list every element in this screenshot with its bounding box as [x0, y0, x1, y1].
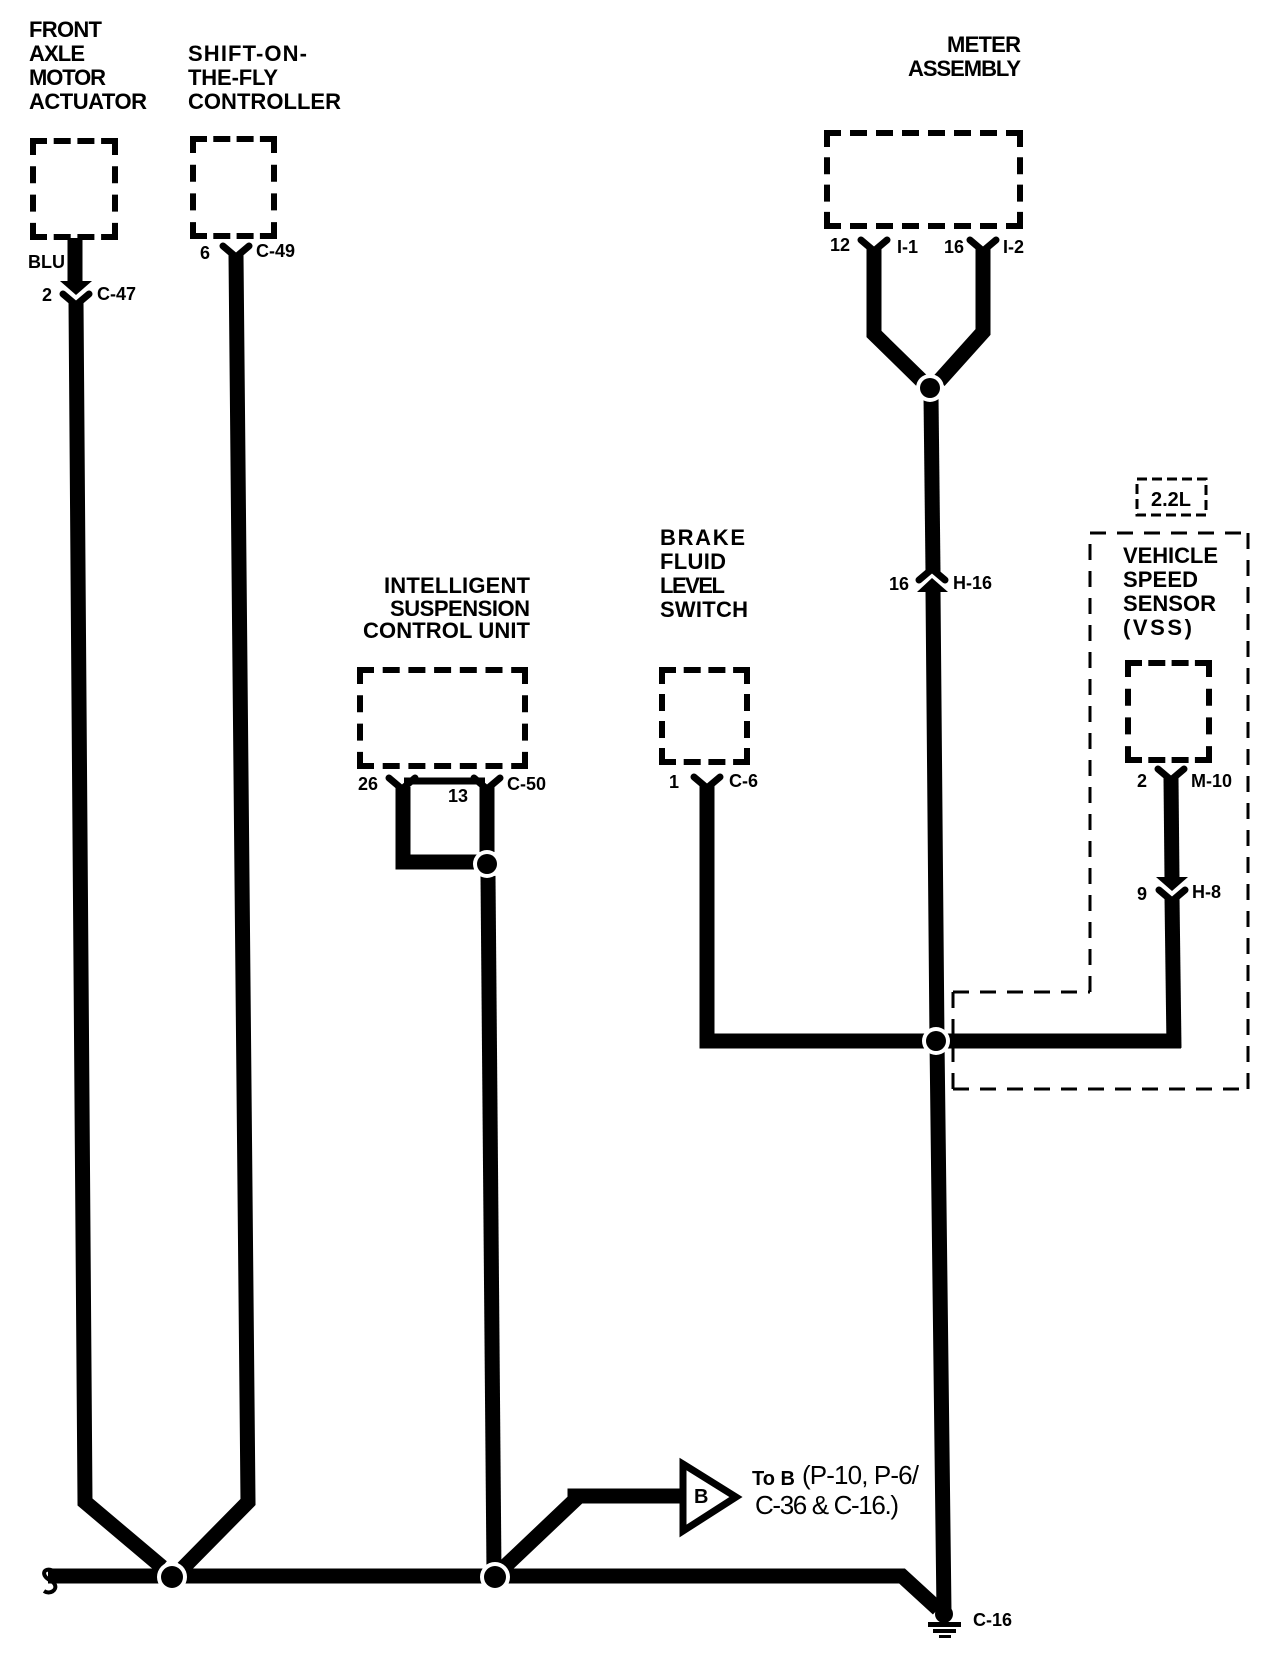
svg-text:26: 26 [358, 774, 378, 794]
svg-text:I-2: I-2 [1003, 237, 1024, 257]
2.2L engine tag box [1137, 479, 1206, 515]
off-page arrow B [683, 1464, 736, 1531]
svg-text:C-36 & C-16.): C-36 & C-16.) [755, 1490, 899, 1520]
svg-text:METER: METER [947, 32, 1021, 57]
dashed region: VSS (2.2L) enclosure [1090, 533, 1248, 1089]
svg-text:VEHICLE: VEHICLE [1123, 543, 1218, 568]
svg-text:To B: To B [752, 1468, 795, 1490]
wire: tie bar between pin 26 and pin 13 [404, 778, 485, 785]
connector H-8 (inline, male down / female) [1156, 877, 1188, 901]
label: VEHICLE SPEED SENSOR (VSS) [1123, 543, 1218, 640]
svg-text:LEVEL: LEVEL [660, 573, 725, 598]
label: BRAKE FLUID LEVEL SWITCH [660, 525, 748, 622]
label: SHIFT-ON-THE-FLY CONTROLLER [188, 41, 341, 114]
svg-text:16: 16 [944, 237, 964, 257]
ISCU pin 13 / connector C-50 (female Y) [474, 778, 500, 789]
svg-text:MOTOR: MOTOR [29, 65, 106, 90]
ISCU pin 26 (female Y) [389, 778, 415, 789]
wire: junction to B arrow [497, 1496, 681, 1574]
svg-text:FRONT: FRONT [29, 17, 103, 42]
wire: shift controller down to lower-left junction [183, 255, 248, 1568]
svg-text:(VSS): (VSS) [1123, 615, 1192, 640]
svg-text:13: 13 [448, 786, 468, 806]
wire: meter main down through H-16 [931, 396, 933, 572]
component box: vehicle speed sensor [1125, 660, 1212, 763]
ground C-16 [928, 1605, 961, 1638]
junction node lower-left [157, 1562, 187, 1592]
svg-text:H-8: H-8 [1192, 882, 1221, 902]
svg-text:16: 16 [889, 574, 909, 594]
wire: meter pin 12 to junction [874, 249, 922, 381]
svg-text:I-1: I-1 [897, 237, 918, 257]
svg-text:C-6: C-6 [729, 771, 758, 791]
label: INTELLIGENT SUSPENSION CONTROL UNIT [363, 573, 531, 643]
junction node at VSS/brake/meter cross [922, 1027, 950, 1055]
svg-text:2: 2 [1137, 771, 1147, 791]
component box: shift-on-the-fly controller [190, 136, 277, 239]
svg-text:BRAKE: BRAKE [660, 525, 745, 550]
svg-text:C-47: C-47 [97, 284, 136, 304]
wire: VSS down to H-8 [1171, 778, 1172, 879]
svg-text:2: 2 [42, 285, 52, 305]
wire: brake fluid switch down and right to junction [707, 786, 1181, 1041]
svg-text:B: B [694, 1486, 708, 1508]
svg-text:ASSEMBLY: ASSEMBLY [908, 56, 1021, 81]
svg-text:CONTROL UNIT: CONTROL UNIT [363, 618, 531, 643]
connector C-6 (pin 1, female Y) [694, 777, 720, 788]
label: FRONT AXLE MOTOR ACTUATOR [29, 17, 147, 114]
svg-text:2.2L: 2.2L [1151, 489, 1191, 511]
label: METER ASSEMBLY [908, 32, 1021, 81]
svg-text:INTELLIGENT: INTELLIGENT [384, 573, 531, 598]
junction node lower-middle [480, 1562, 510, 1592]
wire: pin 13 down [480, 787, 495, 852]
svg-text:1: 1 [669, 772, 679, 792]
wire: meter pin 16 to junction [939, 249, 983, 381]
wire: ground bus [48, 1576, 938, 1609]
svg-text:C-50: C-50 [507, 774, 546, 794]
wire: C-47 down to lower-left junction [76, 301, 162, 1567]
wire: ISCU main down to lower junction [488, 876, 494, 1573]
svg-text:(P-10, P-6/: (P-10, P-6/ [802, 1460, 920, 1490]
svg-text:SWITCH: SWITCH [660, 597, 748, 622]
svg-text:C-49: C-49 [256, 241, 295, 261]
connector I-1 (pin 12, female Y) [861, 240, 887, 251]
svg-text:SENSOR: SENSOR [1123, 591, 1216, 616]
splice squiggle at bus left end [44, 1570, 55, 1593]
junction node under meter [916, 374, 944, 402]
wire: H-8 down to horizontal run [1172, 897, 1174, 1048]
connector C-49 (pin 6, female Y) [223, 246, 249, 257]
svg-text:M-10: M-10 [1191, 771, 1232, 791]
svg-text:CONTROLLER: CONTROLLER [188, 89, 341, 114]
wire: H-16 down to junction and ground [933, 591, 944, 1612]
svg-text:12: 12 [830, 235, 850, 255]
connector I-2 (pin 16, female Y) [970, 240, 996, 251]
svg-text:AXLE: AXLE [29, 41, 85, 66]
connector H-16 (inline, male up / female) [917, 569, 948, 592]
component box: meter assembly [824, 130, 1023, 229]
component box: front axle motor actuator [30, 138, 118, 240]
svg-text:C-16: C-16 [973, 1610, 1012, 1630]
svg-text:SPEED: SPEED [1123, 567, 1198, 592]
connector M-10 (pin 2, female Y) [1158, 769, 1184, 780]
svg-text:SHIFT-ON-: SHIFT-ON- [188, 41, 307, 66]
svg-text:THE-FLY: THE-FLY [188, 65, 278, 90]
label: To B (P-10, P-6/ C-36 & C-16.) [752, 1460, 920, 1520]
svg-text:BLU: BLU [28, 252, 65, 272]
svg-text:6: 6 [200, 243, 210, 263]
wire: front axle actuator to connector C-47 [68, 238, 83, 283]
dashed region: lower enclosure [953, 992, 1248, 1089]
connector C-47 (inline, male down / female) [60, 281, 92, 305]
wire: pin 26 loop left side [403, 787, 482, 862]
component box: brake fluid level switch [659, 667, 750, 765]
junction node ISCU [473, 850, 501, 878]
svg-text:ACTUATOR: ACTUATOR [29, 89, 147, 114]
svg-text:FLUID: FLUID [660, 549, 726, 574]
component box: intelligent suspension control unit [357, 667, 528, 769]
svg-text:9: 9 [1137, 884, 1147, 904]
svg-text:H-16: H-16 [953, 573, 992, 593]
